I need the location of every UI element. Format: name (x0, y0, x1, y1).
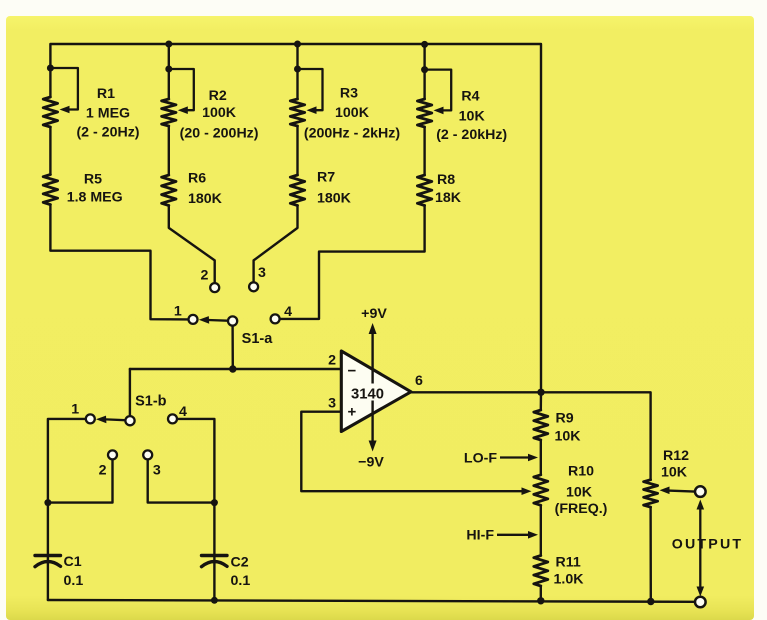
wire S1-b contact 2 down (48, 460, 113, 503)
svg-text:100K: 100K (335, 105, 370, 121)
switch S1-a contact 4 (271, 314, 280, 323)
wire R7 to switch contact 3 (254, 206, 298, 283)
svg-text:180K: 180K (317, 190, 352, 206)
pot R1 wiper arrowhead (60, 106, 70, 114)
resistor R3 (pot element) (290, 99, 304, 126)
resistor R4 (pot element) (417, 99, 431, 127)
svg-text:4: 4 (284, 304, 292, 320)
resistor R11 (534, 556, 548, 587)
svg-text:(2 - 20Hz): (2 - 20Hz) (76, 125, 139, 141)
output terminal top (695, 486, 706, 497)
svg-text:(FREQ.): (FREQ.) (555, 501, 608, 517)
svg-text:R11: R11 (556, 555, 581, 571)
svg-text:S1-a: S1-a (242, 331, 274, 347)
pot R1 wiper loop (50, 68, 78, 110)
op-amp +9V supply arrow (361, 306, 387, 384)
svg-text:1: 1 (71, 402, 79, 418)
svg-text:R7: R7 (317, 170, 335, 186)
svg-text:R4: R4 (461, 89, 479, 105)
switch S1-b contact 2 (108, 450, 117, 459)
svg-text:R8: R8 (437, 172, 455, 188)
svg-text:2: 2 (328, 353, 336, 369)
node op-amp output junction (537, 389, 544, 396)
wire R2-R6 link (168, 126, 170, 175)
svg-text:R10: R10 (568, 464, 594, 480)
node R1 pot top (47, 65, 54, 72)
resistor R1 (pot element) (43, 97, 57, 127)
svg-text:−: − (348, 363, 357, 380)
svg-text:R3: R3 (340, 85, 358, 101)
node R12 ground (647, 598, 654, 605)
pot R4 wiper loop (425, 70, 452, 111)
svg-text:−9V: −9V (358, 455, 384, 471)
svg-text:10K: 10K (566, 484, 593, 500)
svg-text:+: + (348, 404, 357, 421)
svg-text:10K: 10K (555, 429, 582, 445)
wire R6 to switch contact 2 (169, 206, 215, 283)
svg-text:OUTPUT: OUTPUT (672, 537, 744, 553)
pot R2 wiper arrowhead (178, 106, 188, 114)
svg-text:0.1: 0.1 (231, 573, 251, 589)
switch S1-b pole arrow (96, 416, 125, 424)
svg-text:1: 1 (174, 304, 182, 320)
node R11 ground (537, 597, 544, 604)
resistor R8 (417, 175, 431, 206)
op-amp U1 3140 (341, 351, 411, 432)
svg-text:2: 2 (99, 463, 107, 479)
capacitor C2 (202, 556, 228, 567)
svg-text:(2 - 20kHz): (2 - 20kHz) (436, 127, 507, 143)
node top rail / R3 column (294, 41, 301, 48)
svg-text:R1: R1 (97, 86, 115, 102)
pot R3 wiper loop (298, 69, 323, 110)
svg-text:0.1: 0.1 (64, 573, 84, 589)
svg-text:(20 - 200Hz): (20 - 200Hz) (180, 126, 259, 142)
pot R4 wiper arrowhead (434, 107, 444, 115)
wire R3-R7 link (296, 126, 298, 175)
svg-text:1.8 MEG: 1.8 MEG (67, 190, 123, 206)
svg-text:C1: C1 (64, 554, 82, 570)
HI-F tap arrow (466, 528, 538, 544)
svg-text:R9: R9 (556, 411, 574, 427)
wire output junction to R12 top (541, 392, 651, 479)
wire S1-a pole to junction (231, 326, 234, 369)
switch S1-a pole arrow (199, 316, 228, 324)
svg-text:R12: R12 (663, 448, 689, 464)
wire S1-b contact 4 to C2 node (177, 419, 214, 503)
capacitor C1 (35, 556, 61, 567)
svg-text:6: 6 (415, 373, 423, 389)
svg-text:180K: 180K (188, 191, 223, 207)
wire R12 to ground rail (649, 507, 652, 601)
switch S1-b contact 1 (86, 414, 95, 423)
pot R3 wiper arrowhead (307, 106, 317, 114)
wire column R3 top (296, 44, 298, 99)
svg-text:10K: 10K (661, 465, 688, 481)
wire R10 to R11 (540, 505, 542, 555)
wire op-amp pin 3 to R10 wiper (301, 412, 522, 492)
wire R9 to R10 (540, 440, 542, 475)
op-amp 3140 label and input polarity marks (348, 363, 384, 421)
wire R11 to ground rail (540, 586, 542, 600)
wire C1 node to capacitor and ground rail (47, 503, 49, 600)
svg-text:C2: C2 (231, 555, 249, 571)
wire C2 node to capacitor and ground rail (213, 503, 215, 600)
wire R8 to switch contact 4 (280, 206, 425, 319)
svg-text:18K: 18K (435, 190, 462, 206)
wire op-amp output pin 6 (410, 391, 541, 393)
switch S1-b pole contact (125, 416, 134, 425)
svg-text:LO-F: LO-F (464, 450, 497, 466)
wire column R2 top (168, 44, 170, 99)
wire R4-R8 link (423, 127, 425, 175)
svg-text:+9V: +9V (361, 306, 387, 322)
svg-text:R5: R5 (84, 172, 102, 188)
resistor R5 (43, 175, 57, 205)
pot R2 wiper loop (169, 69, 194, 110)
wire S1-b contact 1 to C1 node (48, 419, 86, 503)
svg-text:3: 3 (258, 265, 266, 281)
node C1 top (44, 499, 51, 506)
wire bottom ground rail (48, 600, 695, 602)
R12 wiper arrowhead (660, 487, 670, 495)
switch S1-b contact 4 (168, 414, 177, 423)
wire junction to op-amp pin 2 (130, 368, 342, 370)
switch S1-a pole contact (228, 316, 237, 325)
LO-F tap arrow (464, 450, 538, 466)
switch S1-a contact 2 (210, 283, 219, 292)
svg-text:R2: R2 (209, 88, 227, 104)
svg-text:S1-b: S1-b (135, 394, 167, 410)
wire R9 top link (540, 392, 543, 410)
OUTPUT double-headed arrow (697, 500, 705, 597)
node top rail / R4 column (421, 41, 428, 48)
node R4 pot top (421, 66, 428, 73)
node R2 pot top (165, 66, 172, 73)
svg-text:1 MEG: 1 MEG (86, 106, 130, 122)
svg-text:2: 2 (200, 268, 208, 284)
resistor R9 (534, 410, 548, 440)
node C2 top (211, 499, 218, 506)
wire S1-b contact 3 down (148, 460, 215, 503)
svg-text:1.0K: 1.0K (554, 572, 585, 588)
node top rail / R2 column (165, 41, 172, 48)
output terminal bottom (695, 597, 706, 608)
resistor R2 (pot element) (162, 99, 176, 126)
resistor R6 (162, 175, 176, 206)
switch S1-a contact 1 (189, 315, 198, 324)
node C2 ground (211, 597, 218, 604)
svg-text:4: 4 (179, 404, 187, 420)
resistor R7 (290, 175, 304, 206)
wire top rail (50, 44, 541, 392)
svg-text:(200Hz - 2kHz): (200Hz - 2kHz) (304, 126, 400, 142)
wire R1-R5 link (49, 127, 51, 175)
potentiometer R10 element (534, 475, 548, 506)
node S1-a pole junction (229, 365, 236, 372)
svg-text:3: 3 (153, 463, 161, 479)
svg-text:10K: 10K (459, 109, 486, 125)
wire column R4 top (423, 44, 425, 99)
wire junction down to S1-b pole (129, 369, 131, 416)
svg-text:R6: R6 (188, 171, 206, 187)
svg-text:100K: 100K (202, 105, 237, 121)
node junction dots (44, 41, 654, 606)
R10 wiper arrowhead (522, 487, 532, 495)
wire R5 to switch contact 1 (50, 205, 188, 320)
svg-text:3140: 3140 (351, 386, 384, 402)
potentiometer R12 element (644, 480, 658, 507)
wire R12 wiper to output terminal (668, 491, 695, 492)
op-amp -9V supply arrow (358, 401, 384, 471)
svg-text:3: 3 (328, 396, 336, 412)
svg-text:HI-F: HI-F (466, 528, 494, 544)
node R3 pot top (294, 66, 301, 73)
switch S1-a contact 3 (249, 282, 258, 291)
switch S1-b contact 3 (143, 450, 152, 459)
